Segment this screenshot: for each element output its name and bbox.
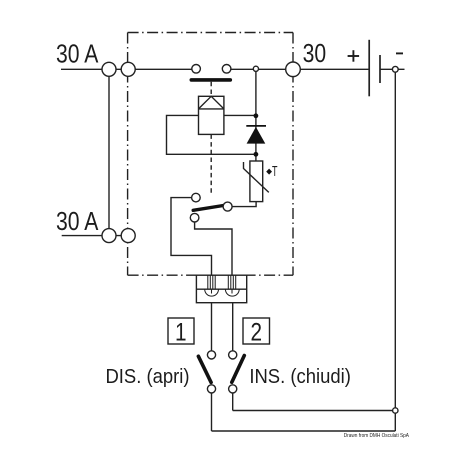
svg-text:Drawn from DMH Osculati SpA: Drawn from DMH Osculati SpA	[344, 433, 410, 439]
svg-text:INS. (chiudi): INS. (chiudi)	[249, 365, 351, 388]
svg-text:T: T	[272, 163, 278, 180]
svg-text:DIS. (apri): DIS. (apri)	[105, 365, 189, 388]
svg-text:2: 2	[251, 317, 263, 345]
svg-text:1: 1	[175, 317, 187, 345]
svg-text:30 A: 30 A	[56, 207, 99, 235]
svg-text:30: 30	[303, 39, 327, 67]
svg-text:30 A: 30 A	[56, 40, 99, 68]
